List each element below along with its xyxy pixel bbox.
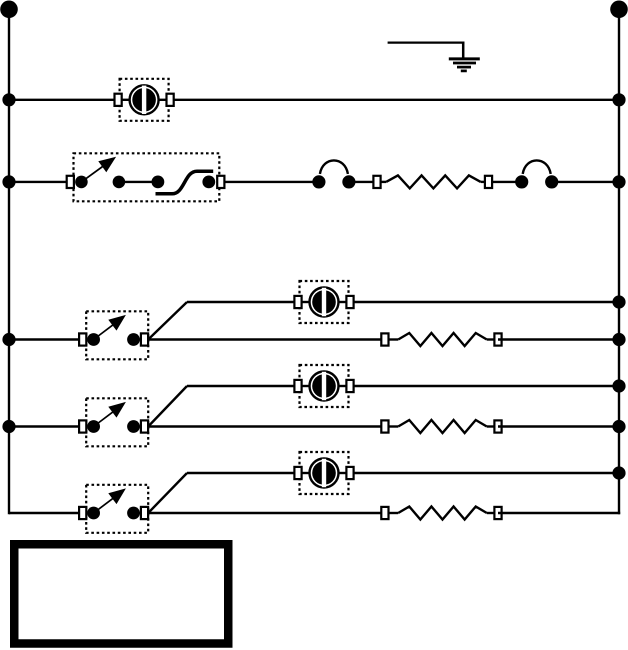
overload coil pair 1 xyxy=(312,160,355,188)
wire row3 from left bus xyxy=(9,338,83,340)
junction row2 left xyxy=(2,175,15,188)
resistor R4 xyxy=(381,507,501,520)
wire row2 mid xyxy=(224,181,319,183)
junction row3 right xyxy=(612,333,625,346)
wire row4 resistor branch xyxy=(148,425,385,427)
wire diagonal row3 xyxy=(148,302,187,340)
switch S2 xyxy=(79,311,148,359)
wire row3 resistor branch xyxy=(148,338,385,340)
switch S3 xyxy=(79,398,148,446)
junction row4 branch right xyxy=(612,379,625,392)
wire row3 lamp branch left xyxy=(187,301,298,303)
right bus wire xyxy=(618,9,620,514)
wire row4 lamp branch left xyxy=(187,385,298,387)
junction row3 branch right xyxy=(612,295,625,308)
wire row5 to right bus xyxy=(498,512,620,514)
overload coil pair 2 xyxy=(515,160,558,188)
resistor R1 xyxy=(373,175,492,188)
wire row4 to right bus xyxy=(498,425,619,427)
wire row4 lamp branch right xyxy=(350,385,619,387)
junction row1 right xyxy=(612,93,625,106)
wire diagonal row5 xyxy=(148,473,187,513)
resistor R3 xyxy=(381,420,501,433)
lamp M2 xyxy=(294,281,353,323)
title block box xyxy=(14,544,228,643)
wire diagonal row4 xyxy=(148,386,187,427)
wire row5 from left bus xyxy=(9,512,83,514)
wire row2 from left bus xyxy=(9,181,70,183)
wire row1 right xyxy=(170,99,619,101)
junction row3 left xyxy=(2,333,15,346)
junction row4 right xyxy=(612,420,625,433)
wire row4 from left bus xyxy=(9,425,83,427)
junction row2 right xyxy=(612,175,625,188)
wire row5 lamp branch right xyxy=(350,472,619,474)
wire row3 to right bus xyxy=(498,338,619,340)
wire xyxy=(492,181,522,183)
lamp M3 xyxy=(294,365,353,407)
node L2 terminal dot xyxy=(610,1,628,19)
lamp M4 xyxy=(294,452,353,494)
wire row2 to right bus xyxy=(552,181,619,183)
switch S4 xyxy=(79,485,148,533)
left bus wire xyxy=(8,9,10,514)
resistor R2 xyxy=(381,333,501,346)
wire row3 lamp branch right xyxy=(350,301,619,303)
junction row1 left xyxy=(2,93,15,106)
wire row5 lamp branch left xyxy=(187,472,298,474)
node L1 terminal dot xyxy=(0,1,18,19)
wire row5 resistor branch xyxy=(148,512,385,514)
junction row5 branch right xyxy=(612,466,625,479)
lamp M1 xyxy=(115,79,174,121)
ground xyxy=(388,42,480,71)
junction row4 left xyxy=(2,420,15,433)
wire xyxy=(349,181,377,183)
switch S1 xyxy=(67,153,225,201)
wire row1 left xyxy=(9,99,118,101)
